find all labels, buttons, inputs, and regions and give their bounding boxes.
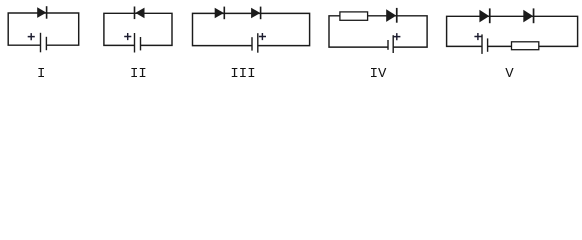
svg-text:III: III — [230, 66, 255, 82]
svg-text:IV: IV — [370, 66, 387, 82]
svg-text:II: II — [130, 66, 147, 82]
svg-text:V: V — [505, 66, 514, 82]
svg-text:I: I — [37, 66, 45, 82]
